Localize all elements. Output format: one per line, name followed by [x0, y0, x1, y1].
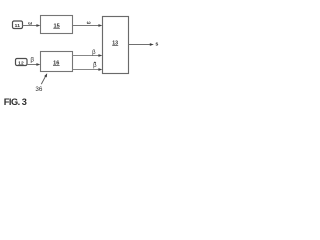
block 11: [13, 21, 23, 29]
svg-text:β: β: [30, 57, 34, 64]
wire 11 to 15: [23, 24, 41, 27]
wire 16 to 13 lower: [73, 68, 103, 71]
block 15: [41, 16, 73, 34]
output wire s from 13: [129, 43, 154, 46]
svg-text:11: 11: [15, 23, 21, 29]
svg-text:β: β: [93, 63, 97, 69]
svg-text:12: 12: [18, 60, 24, 66]
svg-text:36: 36: [35, 86, 43, 93]
signal label beta-hat (lower output of 16): [93, 62, 97, 69]
label 15: [53, 23, 60, 29]
label 13: [112, 41, 118, 47]
svg-text:ω: ω: [28, 20, 32, 26]
block 12: [16, 59, 28, 66]
block 16: [41, 52, 73, 72]
wire 16 to 13 upper: [73, 54, 103, 57]
svg-text:s: s: [155, 41, 158, 47]
wire 15 to 13: [73, 24, 103, 27]
svg-text:ω: ω: [87, 20, 91, 26]
svg-text:FIG. 3: FIG. 3: [4, 97, 27, 107]
svg-text:β: β: [92, 50, 96, 56]
leader arrow from 36 to block 16: [41, 73, 47, 84]
label 16: [53, 61, 60, 67]
wire 12 to 16: [27, 63, 40, 66]
block 13: [103, 17, 129, 74]
